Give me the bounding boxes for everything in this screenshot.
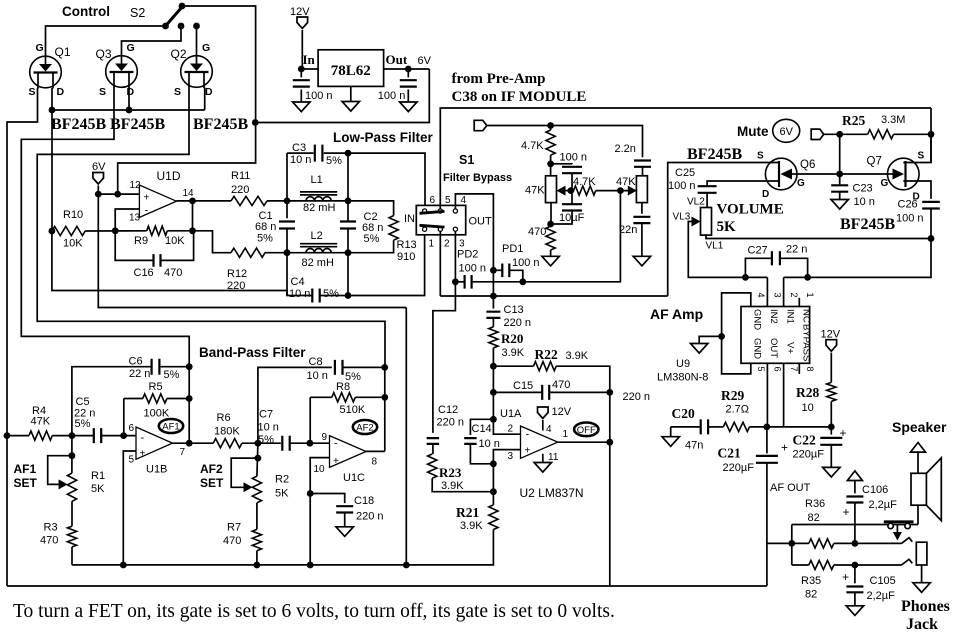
svg-text:Out: Out <box>386 52 408 67</box>
wire R8 left down <box>309 397 311 443</box>
IC U10 78L62 box <box>318 50 384 87</box>
wire regulator ground pin <box>350 86 352 101</box>
wire U1A pin3 <box>493 450 520 464</box>
node PD2 left <box>452 278 459 285</box>
capacitor 2.2n <box>634 161 651 167</box>
wire mid column <box>492 366 494 419</box>
svg-text:10 n: 10 n <box>258 422 279 434</box>
wire C12 to R23 <box>432 444 434 454</box>
wire jack common <box>792 524 918 526</box>
resistor R29 <box>723 422 749 431</box>
svg-text:12V: 12V <box>821 329 841 341</box>
svg-text:Control: Control <box>62 4 110 19</box>
svg-text:1: 1 <box>563 429 569 440</box>
wire R12 to node <box>265 252 287 254</box>
ground below C23 <box>831 200 848 210</box>
flag AF1 <box>159 419 183 433</box>
wire R29 row <box>671 426 701 428</box>
speaker body <box>911 473 926 505</box>
wire jack plunger <box>896 525 898 534</box>
wire R23 bottom jog <box>432 478 493 492</box>
svg-text:5%: 5% <box>326 155 342 167</box>
svg-text:C38 on IF MODULE: C38 on IF MODULE <box>452 89 587 105</box>
wire C20 ground stub <box>670 427 672 437</box>
trimmer R2 5K <box>252 476 261 503</box>
node R20 bottom <box>490 363 497 370</box>
wire C27 left <box>745 258 772 277</box>
capacitor PD2 <box>465 275 472 289</box>
wire C27 right <box>780 258 808 277</box>
svg-text:6V: 6V <box>418 55 432 67</box>
svg-text:100 n: 100 n <box>459 263 487 275</box>
wire 2.2n to pot2 <box>642 167 644 176</box>
svg-text:5%: 5% <box>257 233 273 245</box>
resistor R3 <box>67 526 76 547</box>
svg-text:NC: NC <box>801 309 812 323</box>
jack plunger arrow <box>893 532 902 541</box>
svg-text:C7: C7 <box>259 409 273 421</box>
wire R5 row <box>124 398 143 400</box>
svg-text:OUT: OUT <box>768 338 779 358</box>
wire speaker top <box>917 452 919 473</box>
svg-text:R8: R8 <box>336 381 350 393</box>
node U1B pin6 <box>120 432 127 439</box>
ground below C105 <box>846 606 863 616</box>
svg-text:G: G <box>881 178 889 189</box>
svg-text:2.7Ω: 2.7Ω <box>726 404 750 416</box>
wire signal bus <box>440 295 667 297</box>
node C14 bottom <box>490 460 497 467</box>
capacitor 100n at regulator output <box>400 80 417 86</box>
svg-text:6: 6 <box>430 195 436 206</box>
transistor Q1 <box>30 56 62 89</box>
wire Q2 source to AF2 C8 node <box>37 88 385 368</box>
svg-text:10K: 10K <box>63 238 83 250</box>
wire C18 to ground <box>344 513 346 527</box>
svg-text:3.9K: 3.9K <box>566 350 589 362</box>
svg-text:PD1: PD1 <box>502 243 523 255</box>
wire R35 leads <box>792 564 809 566</box>
wire Q7 gate <box>840 173 889 175</box>
node R36 right <box>852 540 859 547</box>
svg-text:4.7K: 4.7K <box>573 176 596 188</box>
wire AF OUT branch <box>767 542 792 544</box>
capacitor C12 <box>427 438 439 444</box>
resistor R10 <box>52 226 85 235</box>
node R35 right <box>852 562 859 569</box>
svg-text:G: G <box>202 42 210 54</box>
svg-text:10 n: 10 n <box>479 438 500 450</box>
svg-text:G: G <box>797 178 805 189</box>
svg-text:C22: C22 <box>793 433 816 448</box>
svg-text:82: 82 <box>808 512 820 524</box>
svg-text:C23: C23 <box>853 183 873 195</box>
svg-text:BF245B: BF245B <box>840 216 895 233</box>
wire U1B output row <box>173 442 214 444</box>
wire 22n to ground <box>641 223 643 256</box>
node S2 contact b <box>178 23 185 30</box>
svg-text:C26: C26 <box>898 199 918 211</box>
wire C8 loop <box>258 367 332 443</box>
capacitor C16 <box>154 254 161 267</box>
capacitor C18 <box>336 506 353 512</box>
node 6V reference <box>95 191 102 198</box>
svg-text:C3: C3 <box>292 142 306 154</box>
svg-text:S1: S1 <box>459 153 474 167</box>
svg-text:10 n: 10 n <box>854 196 875 208</box>
svg-text:3: 3 <box>773 293 783 298</box>
wire jack sleeve to ground <box>921 565 923 583</box>
node regulator In <box>298 66 305 73</box>
wire C105 top <box>854 565 856 583</box>
wire U1C pin10 <box>310 458 329 494</box>
wire C18 branch <box>310 494 345 504</box>
trimmer R1 5K <box>67 473 76 501</box>
svg-text:220µF: 220µF <box>793 449 825 461</box>
svg-text:C6: C6 <box>129 356 143 368</box>
wiper arrow 47K left <box>557 186 566 196</box>
svg-text:2,2µF: 2,2µF <box>867 590 896 602</box>
svg-text:Mute: Mute <box>737 124 769 139</box>
svg-text:5: 5 <box>129 455 135 466</box>
svg-text:C8: C8 <box>309 356 323 368</box>
node U1D output <box>189 198 196 205</box>
resistor R20 <box>489 327 498 348</box>
svg-text:470: 470 <box>552 379 570 391</box>
resistor R6 <box>213 439 242 448</box>
wire C23 stub <box>839 184 841 186</box>
wire C16 loop left <box>115 231 153 261</box>
svg-text:14: 14 <box>183 188 195 199</box>
wire R11 to C1 node <box>267 200 287 202</box>
node R36 left <box>788 540 795 547</box>
resistor R21 <box>489 505 498 530</box>
wire 12V to In <box>301 30 303 69</box>
wire C16 loop right <box>161 231 194 261</box>
capacitor C20 <box>701 419 708 434</box>
wire pin 1 stub <box>798 298 800 307</box>
svg-text:220 n: 220 n <box>437 417 465 429</box>
ground below C22 <box>823 467 840 477</box>
flag OFF <box>574 423 598 437</box>
capacitor C3 <box>315 145 323 162</box>
jack blade upper <box>902 538 913 544</box>
wire Q2 drain leg <box>204 88 206 111</box>
node PD1 bottom <box>519 278 526 285</box>
wire Q3 source to AF1 C6 node <box>21 88 189 367</box>
svg-text:8: 8 <box>805 367 815 372</box>
node U1C on bus <box>307 562 314 569</box>
wire R10 node down to LPF input <box>52 231 287 296</box>
op-amp U1B <box>136 427 173 459</box>
capacitor C21 <box>756 456 778 463</box>
svg-text:220 n: 220 n <box>356 511 384 523</box>
svg-text:22 n: 22 n <box>129 368 150 380</box>
wire R2 wiper bracket <box>231 458 258 487</box>
wire C6 loop <box>72 367 152 436</box>
svg-text:D: D <box>127 86 135 98</box>
wire R21 to bus <box>72 530 493 565</box>
wire C7 leads <box>280 442 282 444</box>
svg-text:47K: 47K <box>525 185 545 197</box>
svg-text:S: S <box>99 86 106 98</box>
wire node to R21 <box>492 464 494 505</box>
pin circle S1 bottom 3 <box>453 227 457 231</box>
node Q1 drain <box>49 107 56 114</box>
svg-text:+: + <box>140 449 146 460</box>
wire speaker bottom <box>917 505 919 524</box>
wire pin 3 stub <box>766 277 768 306</box>
svg-text:C18: C18 <box>354 495 374 507</box>
node U1A output <box>606 439 613 446</box>
op-amp U1A <box>521 426 558 458</box>
wire IC ground left <box>699 336 721 343</box>
wire output column down <box>609 392 611 442</box>
svg-text:4: 4 <box>756 293 766 298</box>
svg-text:R12: R12 <box>227 268 247 280</box>
svg-text:SET: SET <box>14 476 38 490</box>
wire pin 5 loop <box>722 336 751 374</box>
phones jack sleeve <box>916 542 927 565</box>
wire S1 pin2 to bus <box>439 231 441 296</box>
wire gate junction <box>839 134 841 185</box>
wire R5 left down <box>123 399 125 436</box>
wire C3 to node <box>324 153 425 209</box>
svg-text:U9: U9 <box>676 358 690 370</box>
wire Out cap to ground <box>407 90 409 103</box>
wire PD2 left <box>455 281 464 283</box>
svg-text:U1B: U1B <box>146 464 167 476</box>
svg-text:C106: C106 <box>862 484 888 496</box>
wire Q1 drain leg <box>51 88 53 110</box>
wire R35 to blade <box>834 564 902 566</box>
svg-text:5%: 5% <box>258 434 274 446</box>
capacitor C105 <box>846 587 863 593</box>
wiper arrow R1 <box>59 479 68 489</box>
node regulator Out <box>405 66 412 73</box>
capacitor C8 <box>335 360 343 375</box>
wire S2 common to top rail <box>182 6 256 123</box>
svg-text:C21: C21 <box>718 446 741 461</box>
svg-text:C27: C27 <box>748 245 768 257</box>
wire C14 top <box>470 419 493 435</box>
wire top rail right <box>930 108 932 163</box>
wire C4 column <box>287 253 312 296</box>
svg-text:100 n: 100 n <box>560 152 588 164</box>
node U1D plus input <box>114 191 121 198</box>
wire R9 row to R12 <box>193 231 232 253</box>
svg-text:220µF: 220µF <box>723 462 755 474</box>
svg-text:3.9K: 3.9K <box>502 347 525 359</box>
wire 10uF top <box>571 191 573 205</box>
svg-text:6: 6 <box>129 423 135 434</box>
potentiometer VOLUME 5K <box>701 208 712 236</box>
wire tall rail <box>405 308 407 566</box>
svg-text:D: D <box>205 86 213 98</box>
wire C105 to ground <box>854 592 856 606</box>
wire S2 pole to Q1 gate <box>46 26 166 57</box>
capacitor 22n mid <box>633 217 650 223</box>
wire R2 column <box>257 443 258 476</box>
wire R1 column <box>71 436 73 474</box>
pin circle S1 top 6 <box>423 209 427 213</box>
capacitor C15 <box>542 385 549 400</box>
svg-text:Band-Pass Filter: Band-Pass Filter <box>199 345 306 360</box>
svg-text:D: D <box>57 86 65 98</box>
svg-text:C14: C14 <box>472 423 492 435</box>
ground at U1A <box>534 463 551 473</box>
resistor R9 <box>147 226 168 235</box>
wire 6V rail wrap to control node <box>255 69 429 123</box>
svg-text:GND: GND <box>752 309 763 330</box>
svg-text:+: + <box>840 426 847 440</box>
wire C106 bottom <box>854 503 856 544</box>
svg-text:100K: 100K <box>144 408 170 420</box>
svg-text:7: 7 <box>180 447 186 458</box>
capacitor 10uF <box>562 204 582 210</box>
svg-text:+: + <box>842 570 849 584</box>
node R5 right <box>186 395 193 402</box>
capacitor 100n pot <box>562 167 582 173</box>
node R2 top <box>255 455 262 462</box>
svg-text:IN: IN <box>404 213 415 225</box>
svg-text:3.3M: 3.3M <box>881 114 905 126</box>
wire S1 pin5 to top rail <box>440 108 931 209</box>
svg-text:100 n: 100 n <box>512 257 540 269</box>
capacitor C1 <box>279 222 295 229</box>
node Q3 drain <box>126 107 133 114</box>
svg-text:C4: C4 <box>291 276 305 288</box>
svg-text:R9: R9 <box>134 235 148 247</box>
node S2 pole <box>162 23 169 30</box>
wire R2 to R7 <box>256 503 258 530</box>
wire U1C output <box>366 450 385 452</box>
wire R20 to node <box>492 348 494 366</box>
wire 4.7K to pot node <box>550 155 552 176</box>
svg-text:+: + <box>333 456 339 467</box>
svg-text:+: + <box>781 441 788 455</box>
capacitor C22 <box>820 438 842 445</box>
svg-text:470: 470 <box>223 535 241 547</box>
svg-text:LM380N-8: LM380N-8 <box>657 372 708 384</box>
svg-text:U1A: U1A <box>500 408 522 420</box>
node C2 bottom <box>345 249 352 256</box>
svg-text:4: 4 <box>461 195 467 206</box>
node 6V control rail <box>252 119 259 126</box>
svg-text:BF245B: BF245B <box>687 146 742 163</box>
svg-text:Q7: Q7 <box>867 156 882 168</box>
svg-text:S: S <box>757 151 764 162</box>
node C18 left <box>307 490 314 497</box>
op-amp U1D <box>139 185 176 217</box>
svg-text:6V: 6V <box>779 126 793 138</box>
node C21 top <box>764 424 771 431</box>
svg-text:AF Amp: AF Amp <box>650 306 703 322</box>
node pot1 top <box>547 160 554 167</box>
svg-text:AF OUT: AF OUT <box>770 482 811 494</box>
ground at output cap <box>400 102 417 112</box>
wire drain bus <box>52 109 205 111</box>
wire C26 to node <box>784 209 931 278</box>
wire pin 8 stub <box>798 363 800 374</box>
wire 12V to R28 <box>830 353 832 383</box>
svg-text:470: 470 <box>528 226 546 238</box>
ground at LM380 <box>691 344 708 354</box>
node C26 bottom <box>928 235 935 242</box>
node S2 contact c <box>193 23 200 30</box>
switch S1 lower blade <box>420 225 445 227</box>
svg-text:47K: 47K <box>616 176 636 188</box>
wire pin10 column to bus <box>309 494 311 566</box>
svg-text:IN1: IN1 <box>785 309 796 324</box>
capacitor PD1 <box>502 264 509 278</box>
capacitor C4 <box>312 289 319 303</box>
wire PD2 right <box>472 191 621 282</box>
svg-text:R35: R35 <box>801 575 821 587</box>
svg-text:10K: 10K <box>165 235 185 247</box>
wire C12 top <box>432 432 434 434</box>
svg-text:Q3: Q3 <box>96 47 112 61</box>
wire pin 7 supply <box>783 363 785 427</box>
wire pot2 bottom <box>641 203 643 214</box>
svg-text:R28: R28 <box>796 385 819 400</box>
svg-text:C16: C16 <box>134 267 154 279</box>
wire common down <box>791 525 793 566</box>
svg-text:6V: 6V <box>92 161 106 173</box>
node C8 right <box>381 364 388 371</box>
wire C21 column <box>766 427 768 454</box>
svg-text:+: + <box>525 446 531 457</box>
pin circle S1 bottom 1 <box>423 227 427 231</box>
svg-text:5K: 5K <box>717 219 737 235</box>
svg-text:OFF: OFF <box>577 425 596 436</box>
svg-text:22n: 22n <box>619 224 637 236</box>
jack blade lower <box>902 559 913 565</box>
svg-text:AF2: AF2 <box>356 423 373 434</box>
wire U1D output <box>176 200 231 202</box>
svg-text:2.2n: 2.2n <box>615 143 636 155</box>
wire C106 top <box>854 480 856 493</box>
capacitor C5 <box>94 428 101 443</box>
node R25 right <box>928 131 935 138</box>
svg-text:AF1: AF1 <box>14 462 37 476</box>
wire Out <box>384 68 430 70</box>
wire U2 out to bottom rail <box>609 442 611 586</box>
svg-text:S: S <box>29 86 36 98</box>
svg-text:100 n: 100 n <box>378 90 406 102</box>
node C27 left <box>742 274 749 281</box>
node C15 left <box>490 389 497 396</box>
svg-text:11: 11 <box>548 452 559 463</box>
svg-text:VOLUME: VOLUME <box>717 202 784 218</box>
wire 6V to node <box>97 186 99 195</box>
svg-text:To turn a FET on, its gate is: To turn a FET on, its gate is set to 6 v… <box>13 601 615 622</box>
svg-text:13: 13 <box>129 213 141 224</box>
svg-text:3: 3 <box>508 451 514 462</box>
svg-text:C20: C20 <box>672 406 695 421</box>
svg-text:Speaker: Speaker <box>892 419 947 435</box>
wire 6V rail down <box>98 194 406 307</box>
wire U1A pin2 <box>493 419 520 434</box>
node R1 top <box>69 452 76 459</box>
wire R22 right <box>556 366 610 392</box>
jack contact circle b <box>905 523 910 528</box>
wire R1 wiper bracket <box>48 456 72 485</box>
svg-text:180K: 180K <box>214 426 240 438</box>
svg-text:G: G <box>127 42 135 54</box>
node S2 top contact <box>179 3 186 10</box>
svg-text:22 n: 22 n <box>786 244 807 256</box>
